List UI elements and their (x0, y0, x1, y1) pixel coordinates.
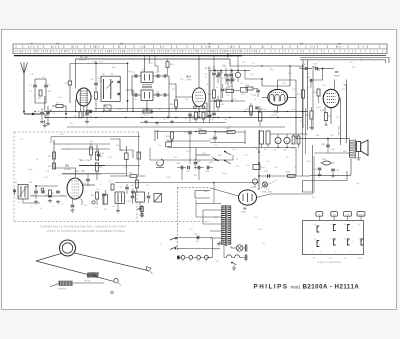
svg-text:68p: 68p (270, 69, 274, 71)
cord anchor hook (146, 267, 152, 275)
capacitor C4 (37, 108, 44, 120)
wire ps h (259, 175, 310, 177)
svg-text:mod.: mod. (291, 284, 302, 290)
trimmer C31 (313, 64, 326, 71)
svg-text:C31: C31 (46, 171, 49, 173)
tube B2 (187, 75, 206, 107)
ground tone a (116, 204, 120, 214)
svg-text:500: 500 (124, 167, 128, 169)
svg-text:C2: C2 (48, 85, 52, 87)
svg-text:o: o (352, 227, 353, 229)
svg-text:VDR: VDR (250, 187, 255, 189)
resistor R18 (245, 103, 253, 117)
cluster b1 bottom (74, 112, 93, 124)
wire B5 right (339, 80, 346, 146)
svg-text:tr: tr (318, 60, 320, 63)
svg-text:R11: R11 (129, 173, 134, 175)
svg-text:S14: S14 (166, 140, 169, 142)
svg-text:0.047: 0.047 (258, 229, 264, 231)
svg-text:10k: 10k (104, 209, 107, 211)
svg-text:S1: S1 (65, 83, 68, 85)
svg-text:485: 485 (64, 51, 67, 53)
wire B2 top (199, 59, 208, 88)
svg-text:1k2: 1k2 (158, 109, 162, 111)
svg-text:6.3v: 6.3v (266, 189, 270, 191)
capacitor C47 (186, 166, 191, 173)
svg-text:235: 235 (210, 51, 213, 53)
svg-text:C33: C33 (306, 77, 311, 79)
circle fm (92, 201, 95, 204)
svg-text:S2: S2 (102, 74, 105, 76)
svg-text:o: o (352, 241, 353, 243)
svg-text:0.5M: 0.5M (190, 116, 195, 118)
resistor R26 (320, 159, 334, 165)
power transformer S25 (214, 205, 231, 246)
wire band drop 1 (144, 56, 146, 60)
svg-text:39k: 39k (214, 249, 217, 251)
svg-text:25u: 25u (146, 185, 149, 187)
wire B5 top (311, 69, 334, 90)
svg-text:1-8: 1-8 (344, 239, 347, 241)
svg-text:460: 460 (78, 51, 81, 53)
svg-text:C60: C60 (193, 234, 198, 236)
svg-text:68p: 68p (116, 145, 120, 147)
svg-text:R5: R5 (52, 193, 56, 195)
volume pot cluster (110, 184, 125, 204)
svg-text:R25: R25 (291, 148, 296, 150)
capacitor C22 (208, 113, 216, 117)
svg-text:1.5k: 1.5k (226, 153, 230, 155)
svg-text:2.2k: 2.2k (261, 167, 265, 169)
svg-text:1k2: 1k2 (322, 85, 326, 87)
wire bus right (290, 60, 308, 130)
legend caption (317, 262, 342, 264)
capacitor C20 (208, 66, 216, 82)
svg-text:4.7k: 4.7k (44, 177, 48, 179)
svg-text:R16: R16 (242, 62, 245, 64)
resistor R1 (52, 103, 66, 108)
svg-text:S16: S16 (312, 197, 315, 199)
svg-text:C50: C50 (264, 171, 269, 173)
capacitor C19b (221, 84, 229, 98)
resistor fm (135, 176, 138, 193)
svg-text:435: 435 (93, 51, 96, 53)
svg-text:1-8: 1-8 (314, 239, 317, 241)
svg-text:(70) - (75): (70) - (75) (262, 192, 272, 194)
resistor R12b (217, 96, 226, 112)
svg-text:C6: C6 (52, 206, 54, 208)
svg-text:20 55: 20 55 (310, 47, 316, 49)
svg-text:C26: C26 (252, 95, 257, 97)
svg-text:25u: 25u (216, 261, 219, 263)
svg-text:SCHEMA DELLA TRASMISSIONE DEL: SCHEMA DELLA TRASMISSIONE DEL COMANDO A … (40, 226, 127, 229)
svg-text:S22: S22 (209, 162, 214, 164)
svg-text:1M: 1M (131, 185, 134, 187)
svg-text:220: 220 (60, 134, 64, 136)
capacitor C6 (91, 63, 98, 93)
wire tone vert (182, 141, 199, 181)
tube B6 (239, 190, 257, 214)
svg-text:+: + (237, 74, 239, 77)
dial scale (13, 43, 387, 55)
capacitor C41 (41, 191, 49, 197)
legend contacts (317, 225, 363, 247)
svg-text:C21: C21 (228, 63, 231, 65)
svg-text:fono: fono (204, 191, 208, 193)
svg-text:-: - (360, 245, 361, 247)
selector circle 2 (262, 182, 267, 187)
wire rail 131 (155, 131, 233, 132)
ground row IF (144, 120, 174, 125)
capacitor C33 (306, 77, 312, 87)
wire agc label (70, 61, 128, 63)
wire audio return (310, 159, 351, 176)
tilde mark (160, 242, 162, 246)
wire det v2 (231, 71, 233, 102)
wire if right stem (158, 70, 168, 76)
cap fm2 (131, 188, 135, 197)
resistor R15 (198, 129, 206, 134)
wire B4 cath (277, 106, 279, 113)
svg-text:C29: C29 (184, 118, 189, 120)
svg-text:-: - (306, 235, 307, 237)
svg-text:C4: C4 (30, 206, 32, 208)
resistor R22 (313, 89, 320, 103)
coil S1a (65, 63, 72, 103)
svg-text:EZ80: EZ80 (241, 212, 247, 214)
svg-text:82k: 82k (194, 175, 197, 177)
svg-text:0.01: 0.01 (66, 149, 71, 151)
cord knot (114, 279, 121, 286)
svg-text:47: 47 (205, 77, 208, 79)
svg-text:1k: 1k (40, 208, 42, 210)
wire ps top (210, 130, 245, 144)
svg-text:C12: C12 (155, 72, 160, 74)
wire bus2 (45, 117, 303, 119)
svg-text:32 30: 32 30 (140, 47, 146, 49)
svg-text:C30: C30 (306, 73, 309, 75)
svg-text:330: 330 (352, 67, 356, 69)
svg-text:1-8: 1-8 (358, 239, 361, 241)
svg-text:R19: R19 (288, 73, 291, 75)
svg-text:S17: S17 (350, 62, 353, 64)
svg-text:o: o (312, 251, 313, 253)
svg-text:gnd: gnd (356, 183, 359, 185)
svg-text:-: - (306, 240, 307, 242)
svg-text:-: - (360, 249, 361, 251)
ground ant (40, 120, 50, 126)
resistor R11 (110, 173, 145, 178)
svg-text:56: 56 (236, 159, 239, 161)
trimmer box (104, 105, 111, 111)
wire det v4 (225, 76, 227, 79)
svg-text:6v: 6v (182, 261, 184, 263)
svg-text:A4S + TMO: A4S + TMO (80, 159, 91, 162)
svg-text:C19: C19 (220, 72, 225, 74)
svg-text:m kHz: m kHz (79, 60, 86, 62)
svg-text:MOLLA: MOLLA (84, 280, 91, 283)
wire af row (150, 159, 233, 161)
svg-text:150: 150 (308, 87, 312, 89)
svg-text:C53: C53 (184, 132, 189, 134)
capacitor C46 (176, 163, 186, 169)
svg-text:C46: C46 (176, 163, 181, 165)
wire speaker (355, 145, 360, 161)
tube B4 (268, 89, 288, 116)
thermistor (250, 179, 258, 189)
svg-text:0.01: 0.01 (58, 97, 63, 99)
svg-text:C55: C55 (209, 139, 214, 141)
capacitor C1 (30, 79, 37, 96)
svg-text:45 B: 45 B (52, 47, 57, 49)
svg-text:260: 260 (195, 51, 198, 53)
electrolytic C44 (119, 146, 128, 176)
resistor R20 (286, 172, 295, 178)
svg-text:R7: R7 (100, 167, 104, 169)
legend marks (305, 224, 362, 259)
svg-text:185: 185 (239, 51, 242, 53)
svg-text:5-6: 5-6 (344, 224, 347, 226)
svg-text:10k: 10k (240, 83, 243, 85)
svg-text:6.8: 6.8 (336, 117, 340, 119)
svg-text:R17: R17 (226, 128, 231, 130)
svg-text:310: 310 (166, 51, 169, 53)
svg-text:0.5: 0.5 (18, 202, 21, 204)
resistor R3 (48, 152, 56, 159)
svg-text:UCH81: UCH81 (64, 169, 72, 171)
svg-text:C.12: C.12 (98, 81, 103, 83)
svg-text:6v: 6v (190, 261, 192, 263)
svg-text:6.8: 6.8 (186, 151, 190, 153)
cap fm (125, 184, 129, 194)
resistor R25 (291, 136, 296, 150)
svg-text:-: - (360, 235, 361, 237)
electrolytic C57 (273, 137, 281, 151)
svg-text:0.01: 0.01 (266, 161, 271, 163)
electrolytic C44b (137, 152, 141, 159)
svg-text:S0: S0 (38, 98, 41, 100)
svg-text:1M: 1M (70, 123, 73, 125)
svg-text:o: o (338, 241, 339, 243)
svg-text:R15: R15 (198, 129, 203, 131)
svg-text:C31: C31 (313, 64, 318, 66)
svg-text:R8: R8 (170, 104, 174, 106)
fuse (224, 255, 245, 258)
tuning pulley (60, 240, 76, 256)
wire fm right edge (138, 132, 140, 176)
svg-text:o.c.: o.c. (344, 257, 348, 259)
svg-text:0.047: 0.047 (148, 63, 154, 65)
svg-text:410: 410 (108, 51, 111, 53)
coil unit S2-S3 (101, 74, 120, 102)
electrolytic C24 (235, 72, 240, 82)
capacitor C12 (153, 72, 169, 78)
wire if down (147, 95, 169, 118)
cluster tone2 (147, 192, 151, 203)
cluster det3 (226, 74, 234, 89)
svg-text:335: 335 (151, 51, 154, 53)
svg-text:EF89: EF89 (187, 80, 193, 82)
wire mid h2 (168, 147, 197, 149)
svg-text:C6: C6 (91, 79, 95, 81)
wire mid h1 (168, 140, 211, 142)
svg-text:15k: 15k (20, 139, 23, 141)
svg-text:120: 120 (48, 91, 52, 93)
svg-text:220: 220 (292, 89, 295, 91)
resistor R24 (324, 113, 331, 125)
svg-text:C.32: C.32 (100, 153, 105, 155)
svg-text:C55: C55 (232, 149, 235, 151)
svg-text:COMM. % POSIZIONI FB: COMM. % POSIZIONI FB (317, 262, 342, 264)
section box dashed (14, 132, 137, 221)
capacitor C32 (97, 149, 105, 161)
capacitor C48 (194, 163, 204, 169)
svg-text:R18: R18 (245, 109, 250, 111)
wire filter rail (196, 147, 296, 176)
svg-text:1M: 1M (250, 74, 253, 76)
capacitor C13 (131, 92, 141, 97)
svg-text:o: o (322, 243, 323, 245)
svg-text:C59: C59 (246, 165, 249, 167)
wire B6 left (210, 188, 239, 196)
wire mid v2 (196, 148, 210, 161)
output transformer S20 (343, 140, 355, 159)
svg-text:o: o (322, 228, 323, 230)
resistor R23 (305, 107, 314, 130)
svg-text:C51: C51 (127, 201, 132, 203)
svg-text:25u: 25u (134, 99, 137, 101)
box det (241, 88, 248, 96)
svg-text:10k: 10k (62, 117, 65, 119)
legend table (303, 212, 366, 255)
wire heater (115, 182, 259, 204)
resistor R27 (297, 136, 300, 148)
wire B2 cath (199, 66, 209, 118)
svg-text:~: ~ (160, 242, 162, 246)
svg-text:1M: 1M (286, 157, 289, 159)
capacitor C11 (131, 72, 141, 78)
capacitor C30b (208, 112, 212, 123)
wire B4 grid (262, 97, 267, 99)
svg-text:0.1: 0.1 (252, 63, 255, 65)
wire mains left (224, 244, 231, 258)
svg-text:B4: B4 (274, 110, 278, 114)
wire rail 108 (95, 108, 207, 109)
svg-text:500: 500 (330, 135, 334, 137)
antenna (21, 63, 28, 115)
svg-text:125: 125 (236, 166, 239, 168)
electrolytic C58 (283, 137, 290, 151)
svg-text:1k2: 1k2 (262, 243, 266, 245)
wire r col (96, 63, 128, 112)
svg-text:R14: R14 (166, 136, 171, 138)
bus junction dots (34, 111, 303, 118)
svg-text:C45: C45 (197, 161, 202, 163)
svg-text:73-0: 73-0 (345, 214, 350, 216)
svg-text:1n: 1n (250, 94, 252, 96)
svg-text:6.8: 6.8 (190, 229, 194, 231)
svg-text:68p: 68p (316, 135, 320, 137)
wire if left (132, 76, 169, 95)
switch S23 (170, 237, 177, 250)
ground mid (141, 205, 143, 208)
svg-text:a.f.: a.f. (313, 257, 316, 259)
IF transformer S9-S10 (141, 70, 159, 101)
wire B6 right (257, 192, 314, 198)
svg-text:46S - TMO: 46S - TMO (75, 171, 86, 173)
svg-text:2.2M: 2.2M (100, 117, 105, 119)
svg-text:B1: B1 (66, 164, 70, 168)
svg-text:23542: 23542 (358, 214, 365, 216)
tension spring (84, 272, 98, 282)
resistor R33 (90, 143, 93, 160)
transformer tap verts (196, 200, 222, 225)
choke L1 (256, 131, 264, 151)
svg-text:C11: C11 (131, 72, 136, 74)
svg-text:56: 56 (206, 84, 209, 86)
svg-text:47: 47 (254, 99, 257, 101)
wire supply top (76, 57, 231, 59)
transformer taps (210, 231, 214, 233)
svg-text:C36: C36 (321, 144, 326, 146)
svg-text:5-6: 5-6 (314, 224, 317, 226)
wire node a (65, 106, 67, 115)
svg-text:-: - (306, 245, 307, 247)
capacitor C29 (184, 112, 192, 123)
svg-text:UCL82: UCL82 (271, 115, 278, 117)
wire left nodes (23, 185, 60, 204)
svg-text:S9: S9 (142, 70, 145, 72)
switch S21 (218, 151, 231, 164)
svg-text:82k: 82k (172, 89, 175, 91)
title PHILIPS (254, 284, 360, 291)
svg-text:19 50: 19 50 (336, 47, 342, 49)
wire bus 2b (140, 122, 226, 124)
svg-text:82k: 82k (342, 89, 345, 91)
svg-text:o: o (335, 251, 336, 253)
wire band drop 4 (213, 56, 215, 70)
dial cord bottom (36, 261, 114, 281)
svg-text:5-6: 5-6 (330, 224, 333, 226)
svg-text:38 1.07: 38 1.07 (93, 47, 101, 49)
svg-text:47: 47 (100, 184, 103, 186)
resistor R5 (49, 190, 56, 197)
dial cord right (75, 253, 149, 271)
svg-text:S24: S24 (256, 149, 260, 151)
wire fm h136 (51, 137, 140, 143)
svg-text:o: o (350, 251, 351, 253)
tube B1 (64, 164, 83, 200)
svg-text:C58: C58 (283, 150, 288, 152)
svg-text:1k2: 1k2 (174, 157, 178, 159)
coil S0 (38, 90, 42, 100)
choke L2 (264, 131, 270, 151)
svg-text:6v: 6v (205, 261, 207, 263)
dial cord left (36, 254, 61, 262)
wire bus junctions (23, 111, 260, 119)
svg-text:47k: 47k (96, 189, 99, 191)
capacitor C50 (264, 171, 269, 178)
svg-text:R3: R3 (48, 156, 52, 158)
transformer ground (217, 242, 222, 246)
box S14b (166, 140, 172, 147)
resistor R10 (166, 59, 175, 70)
svg-text:R10: R10 (170, 64, 175, 66)
mains switch (231, 262, 236, 271)
svg-text:100p: 100p (28, 169, 33, 171)
cord screw (111, 291, 114, 294)
svg-text:C1: C1 (30, 85, 34, 87)
